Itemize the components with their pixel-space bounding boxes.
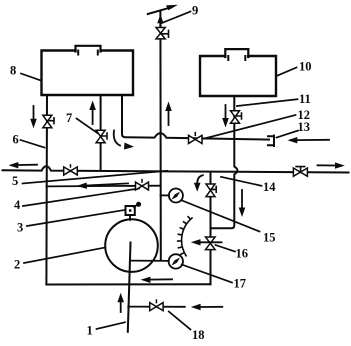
leader 11 [237, 99, 298, 106]
leader 8 [21, 74, 41, 81]
gauge (label 17) [169, 254, 183, 268]
valve 7 [96, 130, 107, 143]
leader 9 [162, 12, 191, 24]
svg-text:7: 7 [66, 111, 72, 125]
pipe from tank10 down (hops line B) then elbow left at y228 [211, 96, 237, 228]
gauge (label 15) [169, 189, 183, 203]
svg-text:11: 11 [299, 92, 311, 106]
curved hook arrow at tee [194, 175, 203, 192]
svg-text:4: 4 [14, 198, 21, 212]
branch with valve 18 [128, 306, 185, 308]
leader 17 [182, 265, 232, 283]
svg-text:13: 13 [298, 120, 311, 134]
valve on line A [189, 133, 203, 144]
valve 9 [156, 28, 169, 39]
svg-text:9: 9 [192, 4, 198, 18]
svg-text:8: 8 [10, 64, 16, 78]
pipe 6 (tank8 left outlet, continues as box left edge) [45, 95, 48, 285]
up arrowhead on riser [157, 14, 163, 26]
valve 18 [150, 300, 163, 311]
svg-text:2: 2 [14, 258, 20, 272]
branch from line B to valves 15/16 [210, 172, 212, 284]
leader 16 [216, 245, 236, 252]
valve on line B left [64, 165, 78, 175]
flow arrow left above box bottom [141, 277, 172, 283]
svg-text:15: 15 [263, 231, 276, 245]
leader 3 [27, 210, 126, 226]
flow arrow down inside branch 14 [239, 190, 246, 217]
flow arrow up beside pipe 1 [117, 293, 124, 312]
flow arrow left on it [77, 183, 129, 189]
svg-text:18: 18 [192, 328, 205, 342]
pump circle 2 [105, 219, 158, 272]
svg-text:16: 16 [236, 247, 249, 261]
leader 14 [221, 177, 262, 186]
leader 2 [24, 248, 105, 264]
left exit arrow [9, 162, 38, 168]
svg-text:5: 5 [12, 174, 18, 188]
flow arrow into bracket 13 [288, 137, 330, 143]
valve on line B right [293, 167, 307, 177]
flow arrow up beside pipe 7 [89, 101, 96, 125]
tank 8 [42, 46, 134, 95]
pipe from tank8 right outlet elbow into line A [122, 95, 269, 140]
valve 4 [136, 180, 149, 190]
svg-text:3: 3 [17, 221, 23, 235]
curved hook arrow under elbow [114, 131, 134, 150]
line B (main horizontal) with hop over pipe 6 [3, 166, 349, 172]
vent slant at top [148, 5, 178, 14]
flow arrow down beside pipe 11 [222, 105, 229, 128]
pipe 7 (tank8 middle outlet down to line B) [100, 95, 102, 171]
open end bracket 13 [268, 136, 274, 147]
recirculation line with valve 4 [46, 185, 160, 188]
svg-text:17: 17 [234, 277, 247, 291]
leader 1 [97, 322, 126, 329]
scale arc with ticks beside valve 16 [178, 217, 192, 256]
leader 13 [277, 131, 299, 138]
center pipe (riser) [159, 12, 161, 261]
svg-text:10: 10 [299, 60, 312, 74]
leader 6 [21, 140, 45, 148]
svg-text:1: 1 [87, 324, 93, 338]
pump suction line down (pipe 1) [128, 243, 131, 332]
leader 7 [77, 119, 99, 134]
svg-text:6: 6 [13, 133, 19, 147]
leader 18 [169, 312, 191, 330]
leader 4 [23, 189, 139, 207]
leader 12 [203, 115, 296, 139]
box bottom line [46, 283, 210, 285]
leader 15 [182, 200, 260, 231]
valve 16 with through arrow [191, 237, 222, 250]
right exit arrow [318, 162, 345, 168]
valve 6 [43, 115, 54, 128]
leader 10 [277, 68, 297, 77]
tank 10 [200, 49, 276, 96]
leader 5 [23, 171, 168, 184]
flow arrow left into branch [191, 304, 223, 310]
small device 3 on pump [126, 202, 142, 220]
valve 15 [206, 184, 216, 197]
valve 11 [231, 111, 242, 124]
svg-text:14: 14 [263, 180, 276, 194]
flow arrow down beside pipe 6 [30, 106, 37, 128]
riser up arrow mid (above line A) [165, 102, 172, 126]
stub to gauge 17 [131, 260, 169, 262]
stub to gauge 15 [160, 194, 169, 196]
